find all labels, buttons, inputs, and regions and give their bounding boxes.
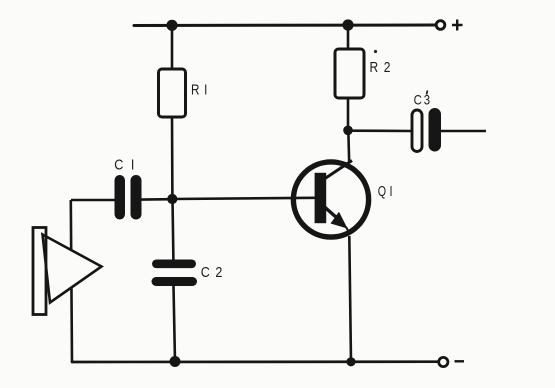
node junction dot collector node [343,126,353,136]
svg-text:C2: C2 [201,263,228,280]
node junction dot top-left (R1 to V+) [166,20,177,31]
transistor Q1 collector stroke [325,161,352,179]
transducer crystal rectangle [33,228,46,315]
wire base node to Q1 base [172,198,316,199]
transistor Q1 body circle [293,162,368,237]
transistor Q1 emitter stroke with arrow [324,207,349,232]
wire bottom return rail [72,360,438,363]
wire collector node to C3 [348,129,412,132]
wire input left segment (corner to C1) [71,199,115,202]
wire R1 top lead [171,25,174,70]
wire top supply rail [134,24,435,28]
wire input left vertical (down behind transducer to bottom rail) [71,200,72,362]
wire collector vertical (node to Q1) [347,130,351,163]
svg-text:RI: RI [191,81,212,98]
wire C1 to base node [141,198,172,201]
capacitor C1 left plate [115,175,126,220]
node junction dot top-right (R2 to V+) [342,19,353,30]
node junction dot bottom-right (emitter branch) [346,357,355,366]
wire R2 bottom lead to collector node [347,98,350,130]
node junction dot bottom-left (C2 branch) [170,356,181,367]
transducer triangle (input element) [43,235,102,303]
wire R2 top lead [347,25,350,50]
transistor Q1 base bar [315,173,327,223]
svg-text:QI: QI [378,182,396,199]
stray mark above R2 [374,50,377,53]
capacitor C3 right plate (solid) [429,108,442,152]
capacitor C1 right plate [131,175,142,220]
wire emitter lead to bottom rail [349,236,351,362]
svg-text:R2: R2 [370,59,397,76]
svg-text:CI: CI [114,155,142,172]
svg-text:C3: C3 [414,91,433,108]
wire R1 bottom lead to base node [171,117,174,199]
resistor R2 [335,49,364,98]
capacitor C2 bottom plate [152,277,198,286]
terminal + (positive supply) [436,20,462,31]
wire C3 output lead [441,130,486,133]
wire base node down to C2 [171,199,174,260]
resistor R1 [159,69,186,117]
capacitor C3 left plate (hollow) [412,110,422,152]
node junction dot base node (C1/R1/C2) [167,194,177,204]
stray tick above C3 [427,91,428,95]
capacitor C2 top plate [152,260,196,269]
terminal - (negative supply) [439,357,464,366]
wire C2 bottom lead to bottom rail [174,286,176,362]
